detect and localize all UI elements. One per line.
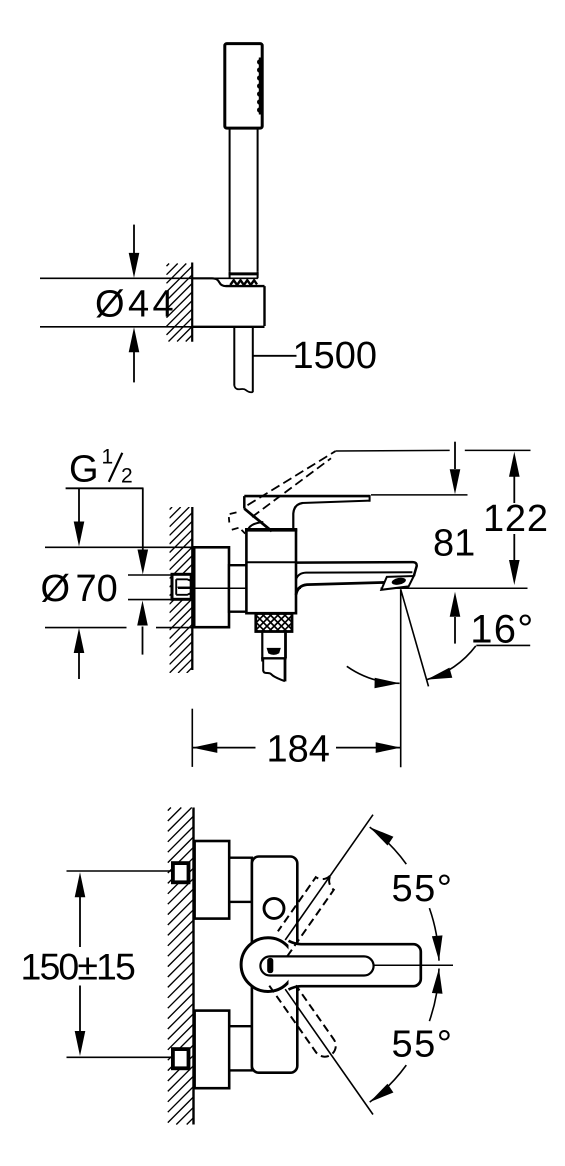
label 122 (483, 498, 549, 540)
arc 55 bottom (370, 969, 443, 1103)
shower handle (229, 128, 259, 274)
spray face strip (257, 58, 263, 115)
hub circle (241, 938, 295, 992)
lever slot (260, 956, 373, 975)
svg-text:G: G (69, 448, 99, 490)
dim Ø70 (45, 547, 194, 679)
hub dark mark (267, 958, 273, 973)
dim ext line Ø44 bottom (40, 326, 192, 328)
label 81 (433, 522, 475, 564)
label 55 bottom (392, 1023, 454, 1065)
dashed lever up (278, 875, 334, 957)
leader 1500 (253, 355, 297, 357)
centerline y588 (178, 587, 528, 589)
arc 16deg left (347, 666, 400, 688)
neck (229, 565, 248, 612)
label 16deg (470, 607, 534, 651)
dim 122 (465, 450, 531, 585)
nipple ext lines (128, 575, 172, 600)
svg-text:81: 81 (433, 522, 475, 564)
supply block bottom (195, 1011, 230, 1089)
svg-text:150±15: 150±15 (21, 946, 136, 988)
aerator (381, 576, 414, 590)
dim ext line Ø44 top (40, 277, 258, 279)
wall hatch (middle view) (170, 507, 193, 673)
outlet port dark (267, 648, 281, 655)
slanted 16deg line (401, 589, 429, 686)
lever centerline (374, 964, 453, 966)
dim G12 leader (66, 488, 149, 654)
shower holder bracket (192, 278, 264, 327)
svg-text:184: 184 (267, 729, 330, 771)
supply nipple (172, 574, 194, 599)
knurl band (230, 271, 258, 285)
label Ø44 (95, 284, 177, 326)
dim Ø44 arrows (129, 225, 140, 383)
label 184 (267, 729, 330, 771)
escutcheon (194, 547, 229, 627)
wall hatch (top view) (167, 263, 193, 342)
shower outlet (261, 632, 286, 682)
label G1/2 (69, 446, 133, 491)
label 1500 (293, 335, 378, 377)
label 55 top (392, 868, 454, 910)
body (front view) (252, 857, 297, 1073)
svg-text:1500: 1500 (293, 335, 378, 377)
dim 150 (67, 871, 172, 1057)
label 150 (21, 946, 136, 988)
dim 184 (192, 709, 400, 767)
lever solid (244, 495, 369, 531)
svg-text:2: 2 (121, 464, 133, 487)
knurled nut (256, 614, 292, 632)
step tab top (229, 858, 252, 902)
hose (234, 327, 253, 392)
dim 81 (371, 442, 468, 644)
label 16deg leader (476, 644, 530, 646)
svg-text:Ø44: Ø44 (95, 284, 177, 326)
line +55 (285, 815, 373, 940)
step tab bottom (229, 1026, 252, 1070)
svg-text:70: 70 (76, 568, 118, 610)
label Ø70 (41, 568, 118, 610)
screw (264, 898, 284, 918)
svg-text:1: 1 (102, 446, 114, 469)
svg-text:55°: 55° (392, 868, 454, 910)
lever raised dashed (229, 450, 450, 533)
arc 16deg right (427, 646, 476, 680)
supply block top (195, 841, 230, 919)
shower head (225, 44, 262, 129)
line -55 (285, 989, 373, 1114)
spout (296, 562, 417, 595)
svg-text:Ø: Ø (41, 568, 71, 610)
svg-text:16°: 16° (470, 607, 534, 651)
fixing square top (173, 863, 189, 882)
wall hatch (bottom view) (168, 808, 194, 1125)
svg-text:55°: 55° (392, 1023, 454, 1065)
body (middle view) (245, 530, 297, 613)
arc 55 top (370, 827, 443, 961)
dashed lever down (269, 985, 335, 1056)
lever front (289, 941, 421, 990)
svg-text:122: 122 (483, 498, 549, 540)
vertical ref line (400, 589, 402, 767)
fixing square bottom (173, 1049, 189, 1068)
